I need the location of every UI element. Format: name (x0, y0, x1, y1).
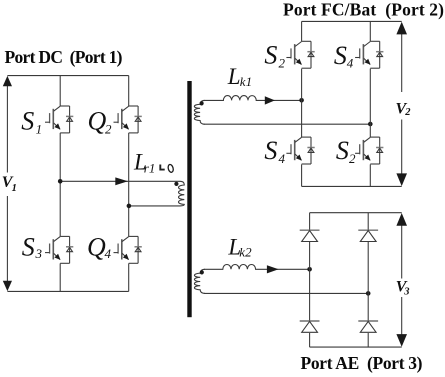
svg-text:4: 4 (105, 246, 112, 261)
svg-text:k2: k2 (239, 245, 252, 260)
svg-text:Port AE (Port 3): Port AE (Port 3) (301, 353, 423, 373)
svg-text:4: 4 (279, 151, 286, 166)
svg-text:3: 3 (35, 246, 43, 261)
svg-text:S: S (21, 106, 34, 135)
svg-text:S: S (264, 136, 277, 165)
svg-text:Port FC/Bat (Port 2): Port FC/Bat (Port 2) (283, 0, 444, 19)
svg-text:3: 3 (403, 287, 409, 298)
svg-text:Port DC (Port 1): Port DC (Port 1) (5, 47, 123, 67)
svg-text:Q: Q (87, 232, 106, 261)
svg-text:1: 1 (12, 183, 17, 194)
svg-text:Q: Q (88, 106, 107, 135)
svg-text:4: 4 (347, 55, 354, 70)
svg-text:S: S (264, 40, 277, 69)
svg-text:r1: r1 (144, 161, 156, 176)
svg-text:2: 2 (404, 107, 411, 118)
svg-text:k1: k1 (240, 74, 252, 89)
svg-text:L: L (227, 64, 241, 89)
svg-text:2: 2 (279, 55, 286, 70)
svg-text:2: 2 (105, 122, 112, 137)
svg-text:1: 1 (36, 122, 43, 137)
svg-text:2: 2 (349, 151, 356, 166)
svg-text:S: S (336, 136, 349, 165)
svg-text:S: S (22, 232, 35, 261)
svg-text:S: S (334, 41, 347, 70)
